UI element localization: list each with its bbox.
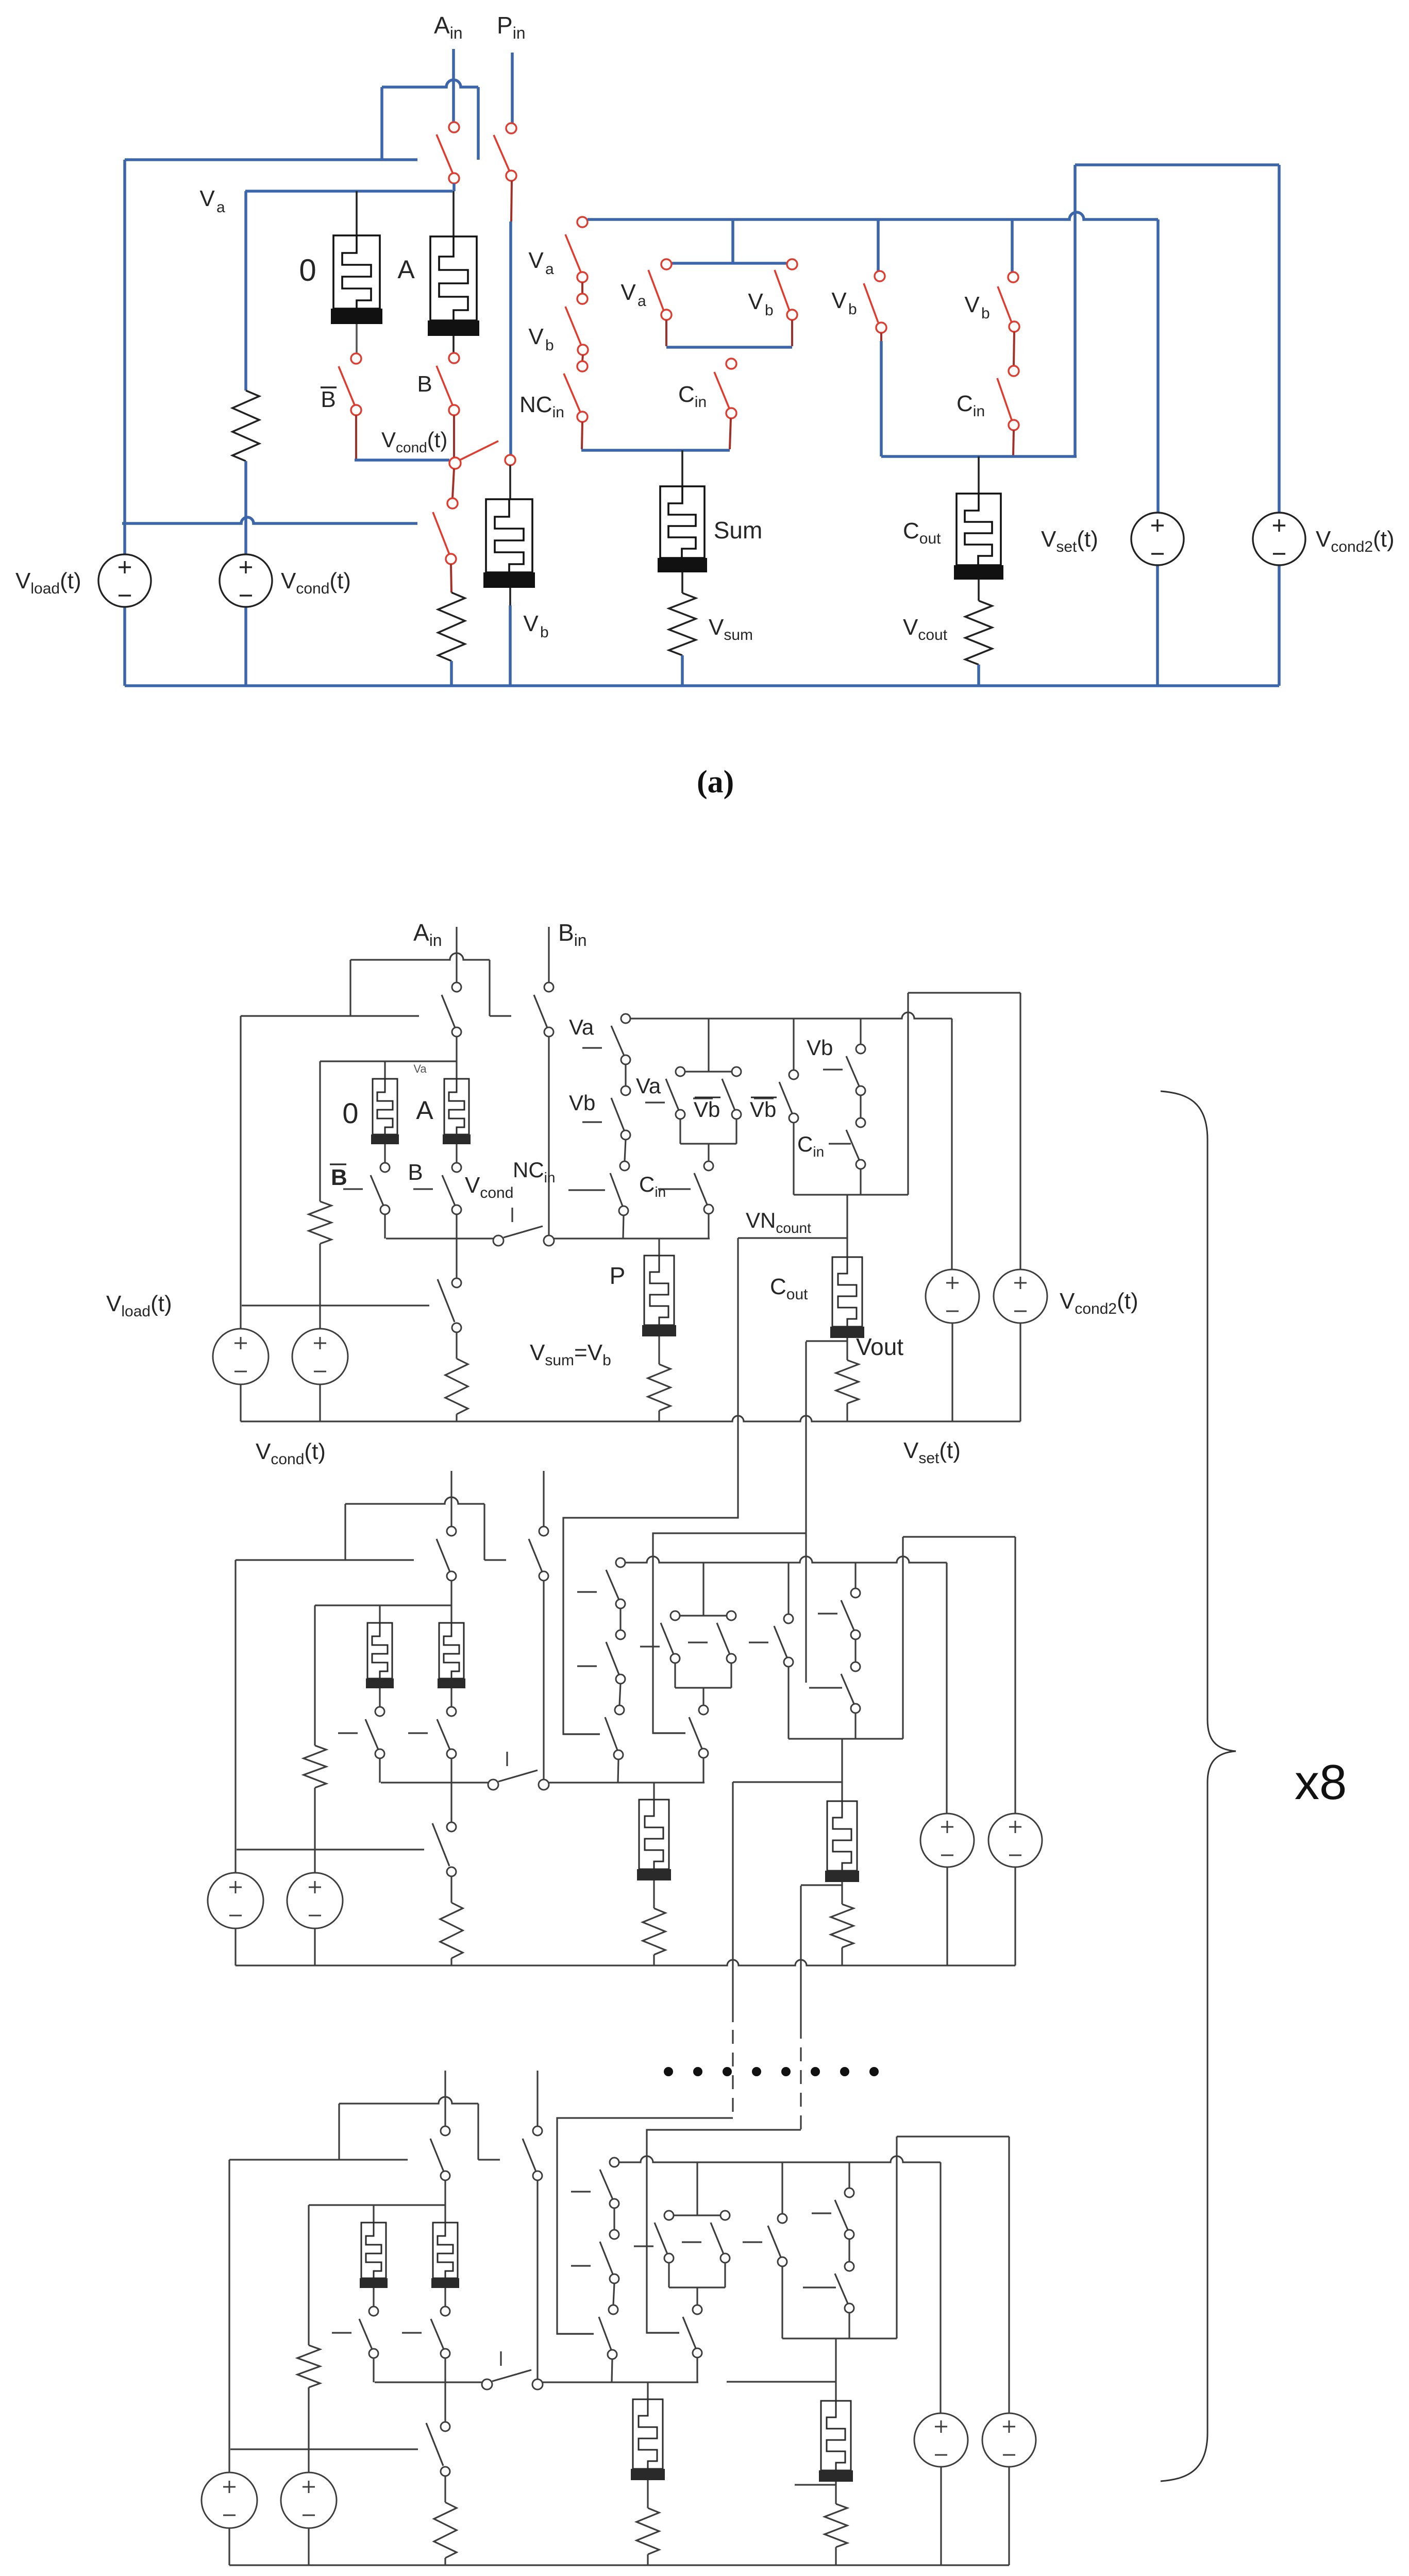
wire Vb-Cin link B1	[860, 1095, 861, 1118]
wire memristor 0 top lead	[356, 191, 358, 235]
switch bridge Va top contact B3	[664, 2211, 674, 2220]
switch Va chain top contact	[577, 217, 588, 227]
node Bin contact B1	[544, 1235, 554, 1246]
wire bridge center stub B2	[702, 1688, 704, 1705]
wire Vcond vertical lower B1	[319, 1383, 321, 1421]
switch B top contact B1	[452, 1163, 461, 1172]
wire chain link 1	[581, 282, 583, 294]
wire Cout lead B1	[846, 1195, 848, 1257]
wire Vcond2 vertical lower	[1278, 566, 1281, 686]
wire right box bottom B3	[782, 2337, 897, 2339]
switch lower top contact B1	[452, 1278, 461, 1287]
label Bbar b1	[330, 1163, 346, 1165]
switch bridge Vbbar blade B2	[717, 1623, 730, 1654]
resistor R_Bbar B3	[297, 2345, 320, 2387]
wire Vcond2 lower B1	[1019, 1323, 1021, 1421]
switch bridge Cin blade B3	[683, 2317, 696, 2348]
source Vcond B3	[281, 2472, 337, 2528]
wire Cin mid stub	[730, 418, 731, 449]
wire lower switch stub B3	[444, 2476, 446, 2502]
switch Vb chain top contact	[577, 294, 588, 304]
wire Bin vertical B1	[548, 1037, 549, 1235]
memristor A B1	[444, 1079, 469, 1134]
switch Ain blade B3	[430, 2139, 444, 2172]
wire switch bus right B1	[554, 1238, 710, 1239]
wire lower switch stub	[451, 564, 451, 592]
wire Vload horizontal with node hop	[122, 517, 417, 523]
resistor R_B B2	[440, 1903, 463, 1958]
wire top right horizontal B2	[903, 1536, 1015, 1537]
switch Vcond blade B2	[498, 1770, 538, 1782]
switch Vb chain bottom contact B3	[610, 2274, 619, 2283]
switch bridge Vbbar bottom contact B1	[732, 1110, 741, 1119]
switch Bin top contact B2	[539, 1527, 548, 1536]
resistor R_Vcond	[232, 391, 259, 461]
switch Vbbar2 top contact B2	[784, 1614, 793, 1623]
wire left vertical lower	[123, 607, 126, 686]
wire Vset vertical B3	[940, 2162, 941, 2413]
wire right vertical B3	[896, 2137, 897, 2338]
switch bridge Cin blade B1	[694, 1173, 707, 1205]
switch Bbar bottom contact B1	[380, 1205, 390, 1214]
wire bridge right leg B1	[735, 1119, 737, 1144]
wire Rsum to rail B3	[647, 2554, 648, 2565]
wire Bin vertical B3	[536, 2180, 538, 2379]
wire memristor A lead B2	[450, 1605, 452, 1623]
wire Ain stub B2	[450, 1581, 452, 1605]
wire left horizontal B2	[236, 1559, 414, 1561]
wire memristor A top lead	[452, 191, 455, 236]
switch Pin top contact	[506, 123, 516, 133]
wire memristor A lead B3	[444, 2205, 446, 2223]
switch NCin top contact B3	[609, 2305, 618, 2314]
memristor P B1	[644, 1256, 674, 1325]
switch Vbbar2 top contact B1	[789, 1070, 798, 1079]
switch Va chain bottom contact	[577, 272, 588, 282]
wire Vbbar2 leg B1	[793, 1123, 794, 1195]
wire bridge top horizontal	[672, 262, 786, 265]
wire memristor 0 bottom lead B3	[373, 2288, 374, 2307]
wire Bin vertical B2	[543, 1581, 544, 1780]
switch Ain bottom contact B3	[441, 2171, 450, 2180]
source Vcond2 B1	[994, 1269, 1047, 1323]
switch Bbar blade B1	[371, 1175, 383, 1206]
switch Ain bottom contact	[449, 173, 459, 183]
overline Bbar label	[321, 386, 337, 388]
wire VNcount route block1 to block2	[563, 1238, 738, 1734]
switch Bin bottom contact B1	[544, 1027, 553, 1037]
switch Ain blade	[437, 134, 452, 173]
switch Cin right bottom contact B2	[851, 1704, 860, 1713]
memristor B	[486, 499, 532, 572]
wire bus B2	[625, 1556, 947, 1563]
wire VNcount horizontal B2	[733, 1781, 842, 1783]
switch bridge Cin bottom contact B1	[704, 1205, 713, 1214]
svg-text:b: b	[540, 624, 549, 641]
switch Bbar bottom contact B3	[369, 2349, 378, 2358]
switch bridge Vb blade	[775, 270, 790, 312]
switch NCin bottom contact B3	[608, 2350, 617, 2359]
wire bus tee Vbbar2 B3	[781, 2162, 783, 2214]
switch B top contact B2	[447, 1707, 456, 1716]
wire B lower stub B3	[444, 2382, 446, 2422]
wire Vcond2 vertical upper	[1278, 165, 1281, 513]
wire memristor Sum top lead	[681, 450, 683, 486]
wire Vcond vertical lower B2	[314, 1927, 315, 1965]
switch bridge Vbbar top contact B1	[732, 1067, 741, 1076]
switch bridge Va blade B2	[661, 1623, 674, 1654]
svg-text:V: V	[964, 292, 980, 317]
wire Bin input B1	[548, 927, 549, 982]
switch B top contact	[449, 353, 459, 363]
switch Vcond common contact	[449, 457, 461, 469]
memristor Sum	[660, 486, 704, 558]
wire B stub	[453, 415, 455, 458]
wire bus B1	[630, 1012, 952, 1019]
memristor 0 B3	[361, 2223, 386, 2278]
switch NCin top contact B2	[615, 1705, 624, 1715]
switch Va chain blade B2	[606, 1570, 619, 1600]
svg-text:P: P	[610, 1262, 626, 1289]
switch bridge Cin top contact B3	[693, 2305, 702, 2314]
wire Vb col3 stub	[880, 333, 882, 341]
switch Vb chain top contact B1	[621, 1086, 630, 1095]
wire memristor Cout top lead	[978, 456, 980, 494]
switch Vbbar2 bottom contact B3	[778, 2257, 787, 2266]
wire bus tee bridge B3	[696, 2162, 698, 2215]
switch Vb chain bottom contact	[578, 345, 588, 355]
wire Rsum to rail B2	[653, 1955, 655, 1965]
switch NCin top contact B1	[620, 1161, 629, 1171]
switch Vbbar2 top contact B3	[778, 2214, 787, 2223]
memristor P B3	[633, 2399, 663, 2469]
wire left vertical lower B2	[234, 1927, 236, 1965]
memristor Cout B3	[821, 2401, 851, 2470]
switch bridge Va bottom contact B1	[676, 1110, 685, 1119]
ellipsis dots	[664, 2067, 673, 2076]
switch bridge Cin top contact B2	[699, 1705, 708, 1715]
switch Vcond common contact B2	[488, 1780, 498, 1790]
wire SPDT link	[452, 469, 454, 498]
wire Cin right leg B3	[848, 2313, 850, 2338]
wire B lower stub B2	[450, 1783, 452, 1822]
svg-text:Va: Va	[413, 1062, 427, 1075]
wire memristor 0 bottom lead B1	[384, 1144, 385, 1163]
wire Bbar stub B1	[384, 1214, 385, 1239]
switch Vb chain top contact B3	[610, 2230, 619, 2239]
wire Vb-Cin link	[1014, 332, 1014, 366]
switch B blade	[437, 366, 452, 405]
wire bridge left leg B3	[668, 2263, 669, 2287]
wire resistor to rail	[450, 661, 453, 686]
wire Cout lead B3	[835, 2338, 836, 2401]
wire right vertical B1	[907, 993, 909, 1195]
switch Bbar bottom contact	[351, 405, 361, 415]
wire VNcount horizontal B1	[738, 1237, 847, 1239]
switch lower bottom contact B1	[452, 1323, 461, 1332]
switch B bottom contact B1	[452, 1205, 461, 1214]
switch Pin bottom contact	[506, 171, 516, 181]
source Vset B2	[920, 1814, 974, 1867]
wire Vset lower B1	[951, 1323, 953, 1421]
switch Ain top contact B1	[452, 982, 461, 992]
switch lower blade	[433, 512, 449, 554]
wire VNcount horizontal B3	[727, 2381, 836, 2382]
wire Vcond2 vertical B1	[1019, 993, 1021, 1269]
svg-text:a: a	[638, 293, 646, 310]
switch Cin right top contact B3	[845, 2262, 854, 2271]
wire Cout bottom lead B3	[835, 2482, 836, 2504]
svg-text:V: V	[748, 289, 763, 314]
wire Vout route block1 to block2	[805, 1342, 807, 1683]
switch Vb chain blade B1	[611, 1098, 624, 1130]
wire P bottom lead B2	[653, 1880, 655, 1908]
wire switch bus left B2	[381, 1782, 489, 1783]
wire right box bottom	[881, 455, 1077, 458]
wire bus tee to Vb col3	[877, 219, 880, 272]
wire Vload horizontal B3	[230, 2448, 418, 2450]
wire memristor B top lead	[509, 465, 511, 499]
wire Vb col3 vertical	[880, 341, 883, 456]
tick marks B1	[343, 1188, 363, 1190]
wire Vb-Cin link B3	[848, 2239, 850, 2262]
svg-text:0: 0	[342, 1097, 358, 1129]
wire B lower stub B1	[456, 1239, 457, 1278]
switch Vb chain blade	[565, 307, 581, 344]
wire Vb vertical to rail	[509, 605, 512, 686]
memristor Cout B1	[832, 1257, 862, 1327]
wire Vout route block2 to block3	[800, 1886, 801, 2025]
wire Vset vertical B1	[951, 1019, 952, 1269]
wire left column vertical B3	[308, 2205, 309, 2345]
switch NCin bottom contact B2	[614, 1750, 623, 1759]
wire Vcond vertical lower B3	[308, 2527, 309, 2565]
wire bus tee to bridge	[731, 219, 734, 262]
switch bridge Vbbar blade B1	[722, 1079, 735, 1110]
svg-text:V: V	[831, 288, 847, 313]
wire bus tee bridge B2	[702, 1563, 704, 1616]
switch B bottom contact	[449, 405, 459, 415]
switch bridge Vb top contact	[787, 259, 797, 269]
wire Rvout to rail B2	[841, 1947, 843, 1965]
source Vcond2 B2	[988, 1814, 1042, 1867]
wire memristor rail B1	[320, 1060, 457, 1062]
switch bridge Va top contact	[661, 259, 672, 269]
wire P lead B3	[647, 2382, 648, 2399]
switch lower blade B2	[432, 1823, 449, 1866]
wire P lead B2	[653, 1783, 655, 1800]
source Vload B3	[202, 2472, 257, 2528]
svg-text:0: 0	[299, 253, 316, 287]
wire left vertical upper	[123, 160, 126, 555]
wire bridge left leg B1	[679, 1119, 681, 1144]
svg-text:V: V	[620, 280, 636, 305]
switch NCin blade B2	[605, 1717, 617, 1750]
node Pin-memristor contact	[505, 455, 515, 465]
memristor A B2	[439, 1623, 464, 1679]
wire NCin stub B3	[612, 2359, 612, 2382]
switch Cin col4 bottom contact	[1009, 420, 1019, 430]
wire Vout tee B1	[806, 1340, 847, 1342]
memristor P B2	[639, 1800, 669, 1869]
switch Pin blade	[494, 135, 510, 172]
wire Rsum to rail	[681, 655, 684, 686]
wire RB to rail B2	[450, 1958, 452, 1965]
switch B blade B1	[442, 1175, 455, 1206]
wire bus tee Vb right B1	[860, 1019, 861, 1044]
switch lower blade B1	[438, 1279, 455, 1322]
memristor 0 B2	[367, 1623, 392, 1679]
wire top right horizontal B1	[908, 992, 1020, 993]
wire Vcond2 lower B2	[1014, 1867, 1016, 1965]
wire switch bus right B3	[543, 2381, 698, 2383]
wire memristor A bottom lead B2	[450, 1688, 452, 1707]
label Vbbar box b1	[751, 1097, 777, 1098]
wire Sum horizontal	[581, 449, 730, 452]
wire Ain input B3	[444, 2071, 446, 2126]
switch Cin right blade B2	[841, 1674, 854, 1704]
svg-text:b: b	[981, 305, 990, 322]
switch Bin top contact B3	[533, 2126, 542, 2136]
switch Vcond common contact B3	[482, 2379, 492, 2389]
switch lower bottom contact B3	[441, 2467, 450, 2476]
switch Cin col4 top contact	[1009, 366, 1019, 376]
switch bridge Vbbar bottom contact B3	[720, 2253, 730, 2263]
wire Ain branch right vertical B2	[483, 1504, 485, 1560]
svg-text:Vout: Vout	[856, 1333, 903, 1360]
switch Vb col3 top contact	[875, 271, 885, 281]
wire Ain branch left vertical	[380, 87, 383, 160]
wire branch stub B1	[490, 1015, 511, 1016]
svg-text:b: b	[848, 301, 857, 318]
switch Vbbar2 blade B1	[779, 1082, 792, 1113]
wire memristor A bottom lead	[452, 336, 455, 353]
svg-text:(a): (a)	[697, 765, 734, 800]
wire Vset lower B2	[946, 1867, 948, 1965]
wire bridge Cin leg B1	[708, 1214, 709, 1239]
switch Cin col4 blade	[997, 378, 1012, 420]
resistor R_Bbar B2	[304, 1745, 326, 1788]
svg-text:Vb: Vb	[569, 1091, 595, 1115]
switch Bbar blade	[339, 366, 355, 405]
switch B bottom contact B2	[447, 1749, 456, 1758]
svg-text:B: B	[417, 371, 432, 397]
wire bus tee Vbbar2 B1	[793, 1019, 794, 1070]
wire Ain branch horizontal B2	[345, 1497, 484, 1504]
svg-text:b: b	[545, 337, 554, 354]
wire bus B3	[619, 2156, 941, 2162]
switch Vb chain bottom contact B2	[616, 1674, 625, 1684]
wire Vcond2 vertical B2	[1014, 1537, 1016, 1814]
switch Vbbar2 bottom contact B1	[789, 1113, 798, 1123]
source Vload B2	[208, 1873, 263, 1928]
switch Vb col3 bottom contact	[876, 323, 886, 333]
wire Ain input	[452, 49, 455, 122]
svg-text:Sum: Sum	[714, 517, 763, 544]
switch Vb right blade B1	[846, 1056, 859, 1086]
wire bridge center stub B1	[708, 1144, 709, 1161]
wire memristor rail B2	[315, 1604, 451, 1606]
switch NCin top contact	[577, 361, 588, 371]
wire Bbar stub B3	[373, 2358, 374, 2382]
wire bus tee to Vb col4	[1011, 219, 1014, 273]
wire bus tee Vb right B2	[854, 1563, 856, 1588]
resistor R_B column	[438, 592, 465, 661]
switch Bbar blade B2	[365, 1719, 378, 1750]
switch lower bottom contact	[446, 554, 456, 564]
switch bridge Va bottom contact B3	[664, 2253, 674, 2263]
wire Vcond vertical B2	[314, 1788, 315, 1875]
wire Ain branch horizontal with hop	[382, 80, 478, 87]
wire right vertical B2	[902, 1537, 903, 1739]
switch B blade B2	[437, 1719, 450, 1750]
wire top right horizontal B3	[897, 2136, 1009, 2137]
wire lower switch stub B1	[456, 1332, 457, 1359]
switch bridge Vb bottom contact	[787, 310, 797, 320]
wire P bottom lead B1	[658, 1336, 660, 1364]
wire Vout tee B2	[801, 1884, 842, 1886]
source Vcond2 B3	[982, 2413, 1036, 2467]
wire Cin right leg B2	[854, 1713, 856, 1739]
wire Va horizontal	[245, 190, 452, 193]
wire bridge top B3	[674, 2214, 720, 2216]
switch bridge Va bottom contact	[661, 310, 672, 320]
svg-text:B: B	[321, 387, 336, 412]
wire left vertical lower B3	[228, 2527, 230, 2565]
switch Vb right top contact B1	[856, 1044, 865, 1054]
switch Cin right top contact B1	[856, 1118, 865, 1127]
switch Vbbar2 bottom contact B2	[784, 1657, 793, 1667]
wire Pin vertical	[509, 222, 512, 454]
wire left vertical B3	[228, 2160, 230, 2475]
wire VNcount route block2 to block3	[732, 1782, 733, 2022]
wire Ain stub B1	[456, 1037, 457, 1061]
wire bottom rail part a	[125, 684, 1279, 687]
svg-text:Va: Va	[569, 1015, 594, 1039]
wire Ain input B1	[456, 927, 457, 982]
wire chain link1 B2	[619, 1608, 621, 1630]
resistor R_B B3	[434, 2502, 457, 2558]
wire chain link1 B1	[625, 1064, 626, 1086]
wire Ain branch right vertical B3	[477, 2104, 479, 2160]
switch Ain blade B2	[437, 1539, 450, 1572]
wire Ain branch left vertical B2	[344, 1504, 346, 1560]
wire Bin input B2	[543, 1471, 544, 1527]
memristor 0	[333, 235, 380, 309]
wire Vcond vertical lower	[244, 607, 247, 686]
wire Vcond vertical B3	[308, 2387, 309, 2475]
wire Ain branch right vertical	[477, 87, 480, 160]
wire left horizontal B3	[229, 2159, 408, 2160]
wire Vset vertical lower	[1156, 566, 1159, 686]
switch Vb right top contact B3	[845, 2188, 854, 2197]
source Vset(t)	[1131, 513, 1184, 565]
switch Va chain blade B3	[600, 2170, 613, 2199]
switch Vb col3 blade	[864, 283, 878, 323]
switch Ain top contact B2	[447, 1527, 456, 1536]
wire Cout box right vertical	[1073, 165, 1077, 456]
svg-text:A: A	[416, 1096, 433, 1125]
wire Vset vertical B2	[946, 1563, 947, 1814]
wire Cout lead B2	[841, 1739, 843, 1801]
switch Va chain top contact B3	[610, 2158, 619, 2167]
memristor Cout B2	[827, 1801, 857, 1871]
switch Vcond common contact B1	[493, 1235, 504, 1246]
wire bottom rail B3	[229, 2564, 1009, 2566]
wire Ain switch stub	[452, 183, 456, 191]
memristor 0 B1	[373, 1079, 397, 1134]
svg-text:V: V	[528, 324, 544, 349]
